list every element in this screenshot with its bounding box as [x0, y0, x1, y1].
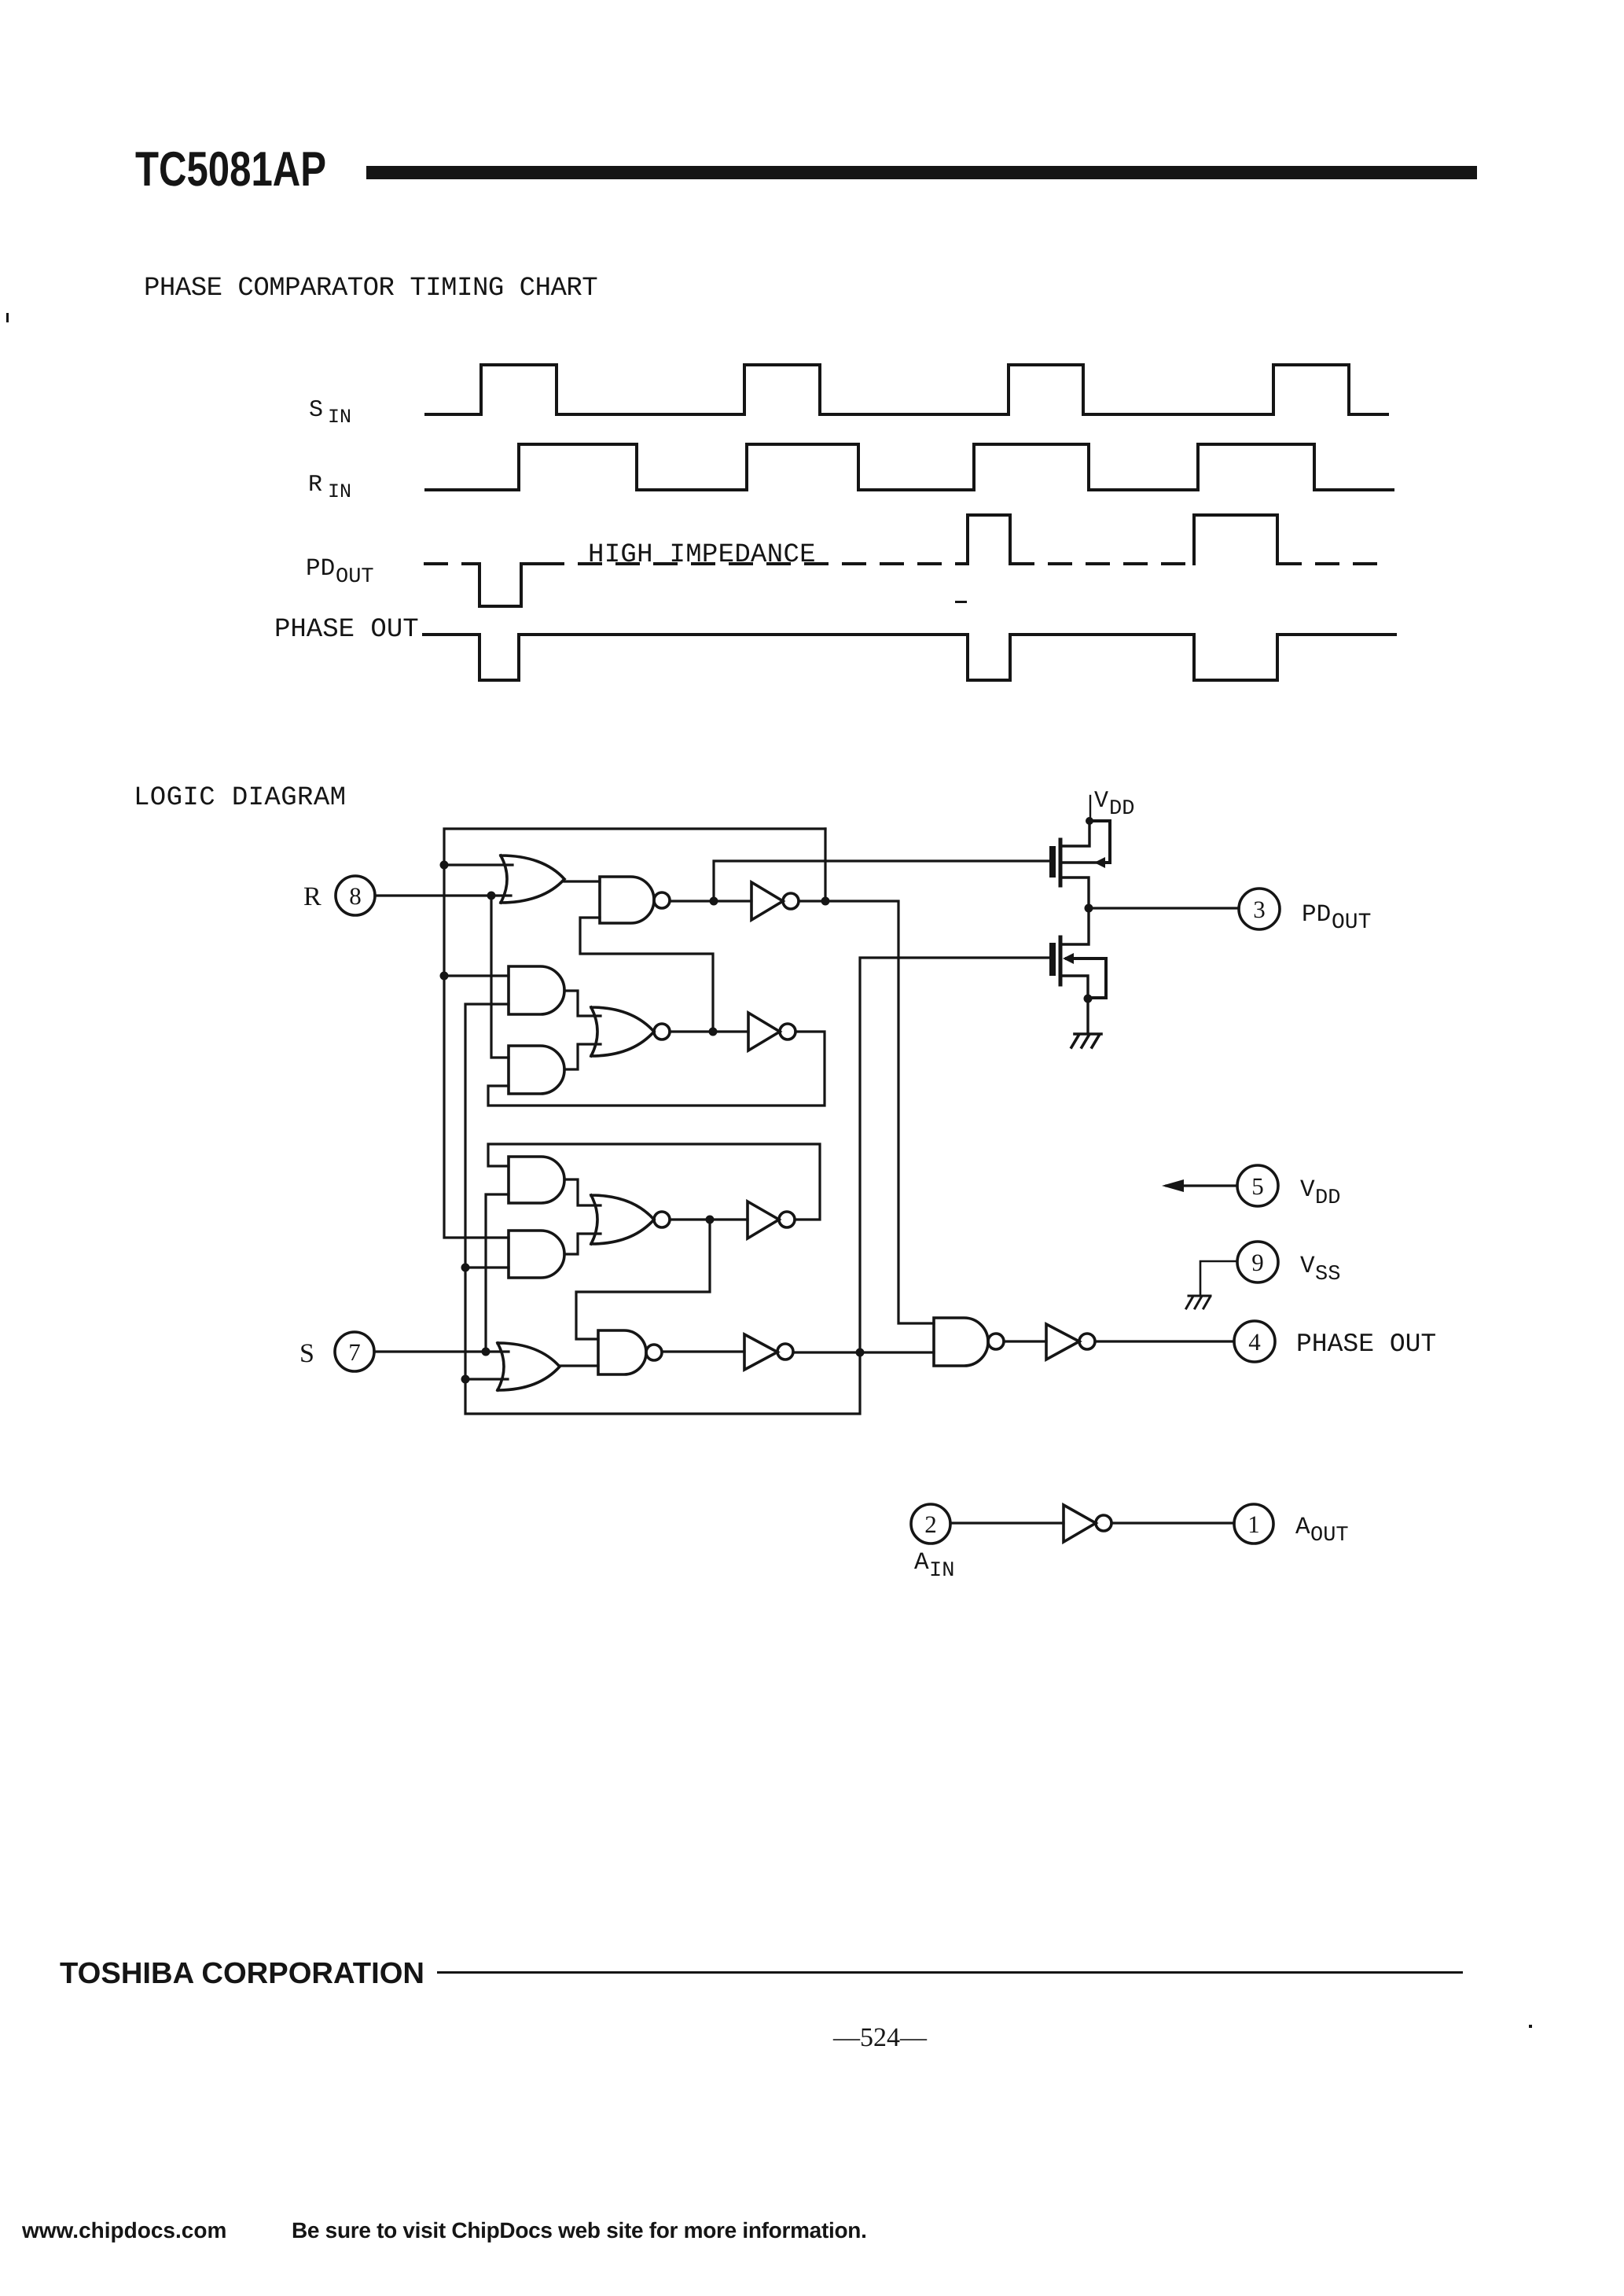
wire S IN waveform — [426, 365, 1387, 414]
node dot S branch — [482, 1348, 491, 1356]
wire AND4 output jog to NOR U8 — [564, 1234, 601, 1254]
wire inverter U6 output feedback to AND2 input — [488, 1032, 825, 1106]
inverter U9 — [748, 1201, 795, 1238]
wire inverter U15 to pin 1 — [1111, 1521, 1234, 1524]
pin 3 label PD OUT — [1302, 901, 1371, 935]
wire riser top box to inverter U5 output — [824, 829, 826, 901]
wire AND1 top input — [444, 974, 509, 977]
inverter U13 — [1046, 1324, 1095, 1360]
inverter U5 — [751, 882, 799, 920]
ground symbol Q2 — [1071, 1034, 1101, 1047]
node dot NAND U3 output — [710, 897, 718, 906]
ground symbol pin 9 — [1186, 1296, 1211, 1308]
svg-text:PHASE OUT: PHASE OUT — [274, 615, 419, 645]
node dot AND4 input — [461, 1264, 470, 1272]
wire rail B from R to AND2 — [491, 896, 509, 1058]
wire AND3 output jog to NOR U8 — [564, 1179, 601, 1205]
svg-text:IN: IN — [929, 1559, 954, 1583]
nand-gate U10 — [598, 1330, 662, 1374]
stray mark top left — [6, 313, 9, 322]
pin 1 circle — [1234, 1504, 1273, 1544]
wire NAND U10 output to inverter U11 — [663, 1350, 744, 1352]
node dot inverter U5 output — [821, 897, 830, 906]
node dot OR1 input — [440, 861, 449, 870]
wire NOR U4 output to inverter U6 — [670, 1030, 748, 1032]
wire PD OUT high pulse 2 — [1194, 515, 1277, 564]
wire inverter U13 output to pin 4 — [1095, 1340, 1234, 1342]
wire OR2 bottom input — [465, 1378, 508, 1380]
stray tick below PD high pulse — [955, 601, 967, 603]
svg-text:V: V — [1300, 1253, 1315, 1280]
node dot R branch — [487, 892, 496, 900]
svg-text:www.chipdocs.com: www.chipdocs.com — [21, 2218, 226, 2243]
svg-text:9: 9 — [1251, 1249, 1264, 1276]
svg-text:A: A — [914, 1549, 929, 1577]
pin 3 circle — [1239, 889, 1280, 929]
pin 2 circle — [911, 1504, 950, 1544]
inverter U11 — [744, 1334, 793, 1370]
svg-text:V: V — [1300, 1176, 1315, 1204]
and-gate G2 — [509, 966, 564, 1014]
svg-text:SS: SS — [1315, 1263, 1340, 1286]
wire NAND U12 output to inverter U13 — [1004, 1340, 1046, 1342]
wire PD OUT low pulse — [479, 564, 542, 606]
wire feedback rail A with top box — [444, 829, 825, 1238]
pin 5 circle — [1237, 1165, 1278, 1206]
power VDD label top — [1094, 788, 1134, 821]
svg-text:TOSHIBA CORPORATION: TOSHIBA CORPORATION — [60, 1957, 424, 1990]
svg-text:OUT: OUT — [1332, 911, 1371, 935]
inverter U15 — [1064, 1505, 1111, 1542]
pin 1 label AOUT — [1295, 1514, 1349, 1547]
nor-gate U4 — [591, 1007, 670, 1056]
node dot AND1 input — [440, 972, 449, 981]
transistor Q1 gate bar — [1049, 849, 1056, 874]
svg-text:R: R — [308, 472, 322, 499]
svg-text:TC5081AP: TC5081AP — [135, 142, 326, 197]
and-gate G7b — [509, 1231, 564, 1278]
wire Q1 substrate stub — [1062, 861, 1099, 863]
transistor Q1 channel bar — [1059, 840, 1063, 885]
node dot inverter U11 output — [856, 1349, 865, 1357]
svg-text:5: 5 — [1251, 1172, 1264, 1200]
wire AND3 bottom input rail D from S — [486, 1194, 509, 1352]
title rule bar — [366, 166, 1477, 179]
wire pin 9 to ground — [1200, 1261, 1237, 1294]
nand-gate U3 — [600, 877, 670, 923]
svg-text:1: 1 — [1247, 1510, 1260, 1538]
wire NAND U3 second input from NOR U4 output — [580, 918, 713, 1032]
svg-text:A: A — [1295, 1514, 1310, 1541]
node S IN label — [309, 397, 351, 429]
pin 4 circle — [1234, 1321, 1275, 1362]
wire PD OUT dashed high impedance segments — [425, 562, 1390, 565]
svg-text:DD: DD — [1109, 797, 1134, 821]
wire OR1 top input — [444, 863, 513, 866]
nor-gate U8 — [591, 1195, 670, 1244]
transistor Q2 — [1053, 908, 1106, 1047]
wire NAND U3 output to inverter U5 — [670, 900, 751, 902]
wire cross couple NOR U8 to NAND U10 — [576, 1220, 710, 1339]
wire R IN waveform — [426, 444, 1393, 490]
wire R input — [375, 894, 511, 896]
svg-text:PHASE COMPARATOR TIMING CHART: PHASE COMPARATOR TIMING CHART — [144, 274, 597, 304]
node PD OUT label — [306, 555, 374, 589]
and-gate G3 — [509, 1046, 564, 1094]
svg-text:IN: IN — [328, 480, 351, 503]
pin 5 label VDD — [1300, 1176, 1340, 1210]
transistor Q2 channel bar — [1059, 937, 1063, 984]
wire PD OUT high pulse 1 — [968, 515, 1010, 564]
wire Q1 source hook to VDD — [1089, 821, 1110, 863]
wire pin 2 to inverter U15 — [950, 1521, 1064, 1524]
svg-text:S: S — [309, 397, 323, 424]
wire Q2 drain stub to output node — [1062, 908, 1089, 944]
node dot Q2 source — [1084, 995, 1093, 1003]
svg-text:PD: PD — [306, 555, 335, 583]
transistor Q2 substrate arrow — [1063, 953, 1074, 964]
stray dot right — [1529, 2025, 1532, 2028]
wire Q2 source stub — [1062, 976, 1088, 999]
svg-text:OUT: OUT — [336, 565, 374, 589]
svg-text:IN: IN — [328, 406, 351, 429]
or-gate G14 — [498, 1343, 560, 1390]
svg-text:7: 7 — [348, 1338, 361, 1366]
svg-text:HIGH IMPEDANCE: HIGH IMPEDANCE — [588, 540, 816, 570]
wire Q2 substrate hook to source — [1067, 959, 1106, 998]
wire inverter U11 output to NAND U12 bottom input — [793, 1351, 934, 1353]
wire NOR U8 output to inverter U9 — [670, 1218, 748, 1220]
wire AND4 bottom input — [465, 1266, 509, 1268]
node dot VDD — [1086, 817, 1093, 825]
pin 9 circle — [1237, 1242, 1278, 1282]
wire OR1 output to NAND U3 — [564, 880, 600, 882]
node dot OR2 input — [461, 1375, 470, 1384]
wire Q2 source to ground — [1086, 999, 1089, 1033]
wire Q1 drain stub — [1062, 821, 1089, 846]
pin 7 circle — [335, 1332, 374, 1371]
svg-text:3: 3 — [1253, 896, 1266, 923]
wire rail C from AND1 input down to bottom box and NMOS gate — [465, 958, 1050, 1414]
svg-text:8: 8 — [349, 882, 362, 910]
node R IN label — [308, 472, 351, 503]
footer rule — [437, 1971, 1463, 1974]
svg-text:PHASE OUT: PHASE OUT — [1296, 1330, 1436, 1359]
wire inverter U5 output to NAND U12 top input — [799, 901, 934, 1323]
transistor Q1 — [1053, 796, 1110, 908]
inverter U6 — [748, 1013, 795, 1050]
svg-text:PD: PD — [1302, 901, 1331, 929]
svg-text:DD: DD — [1315, 1187, 1340, 1210]
wire OR2 output to NAND U10 — [560, 1364, 598, 1367]
node dot NOR U4 output — [709, 1028, 718, 1036]
svg-text:LOGIC DIAGRAM: LOGIC DIAGRAM — [134, 783, 346, 813]
junction dots — [440, 817, 1094, 1384]
wire AND2 output jog to NOR U4 — [564, 1044, 601, 1069]
svg-text:S: S — [299, 1339, 314, 1368]
svg-text:4: 4 — [1248, 1328, 1261, 1356]
power VDD lead — [1089, 796, 1091, 821]
transistor Q2 gate bar — [1049, 946, 1056, 973]
nand-gate U12 — [934, 1318, 1004, 1366]
svg-text:R: R — [303, 882, 321, 911]
pin 9 label VSS — [1300, 1253, 1340, 1286]
node dot PD output — [1085, 904, 1093, 913]
pin 8 circle — [336, 876, 375, 915]
wire pin 5 VDD arrow — [1167, 1184, 1237, 1187]
wire S input — [374, 1350, 509, 1352]
wire output node to pin 3 — [1089, 907, 1239, 909]
svg-text:V: V — [1094, 788, 1108, 815]
svg-text:2: 2 — [924, 1510, 937, 1538]
svg-text:Be sure to visit ChipDocs web: Be sure to visit ChipDocs web site for m… — [292, 2218, 867, 2243]
and-gate G7a — [509, 1157, 564, 1203]
wire PHASE OUT waveform — [424, 635, 1395, 680]
pin 2 label AIN — [914, 1549, 954, 1583]
wire inverter U9 output via lower box top to AND3 input — [488, 1144, 820, 1220]
svg-text:—524—: —524— — [832, 2023, 928, 2052]
wire PMOS gate line — [714, 861, 1050, 901]
node dot NOR U8 output — [706, 1216, 715, 1224]
svg-text:OUT: OUT — [1310, 1524, 1349, 1547]
wire AND1 output jog to NOR U4 — [564, 991, 601, 1016]
or-gate G1 — [501, 855, 564, 903]
wire Q1 source stub to output node — [1062, 878, 1089, 908]
transistor Q1 substrate arrow — [1094, 857, 1105, 868]
